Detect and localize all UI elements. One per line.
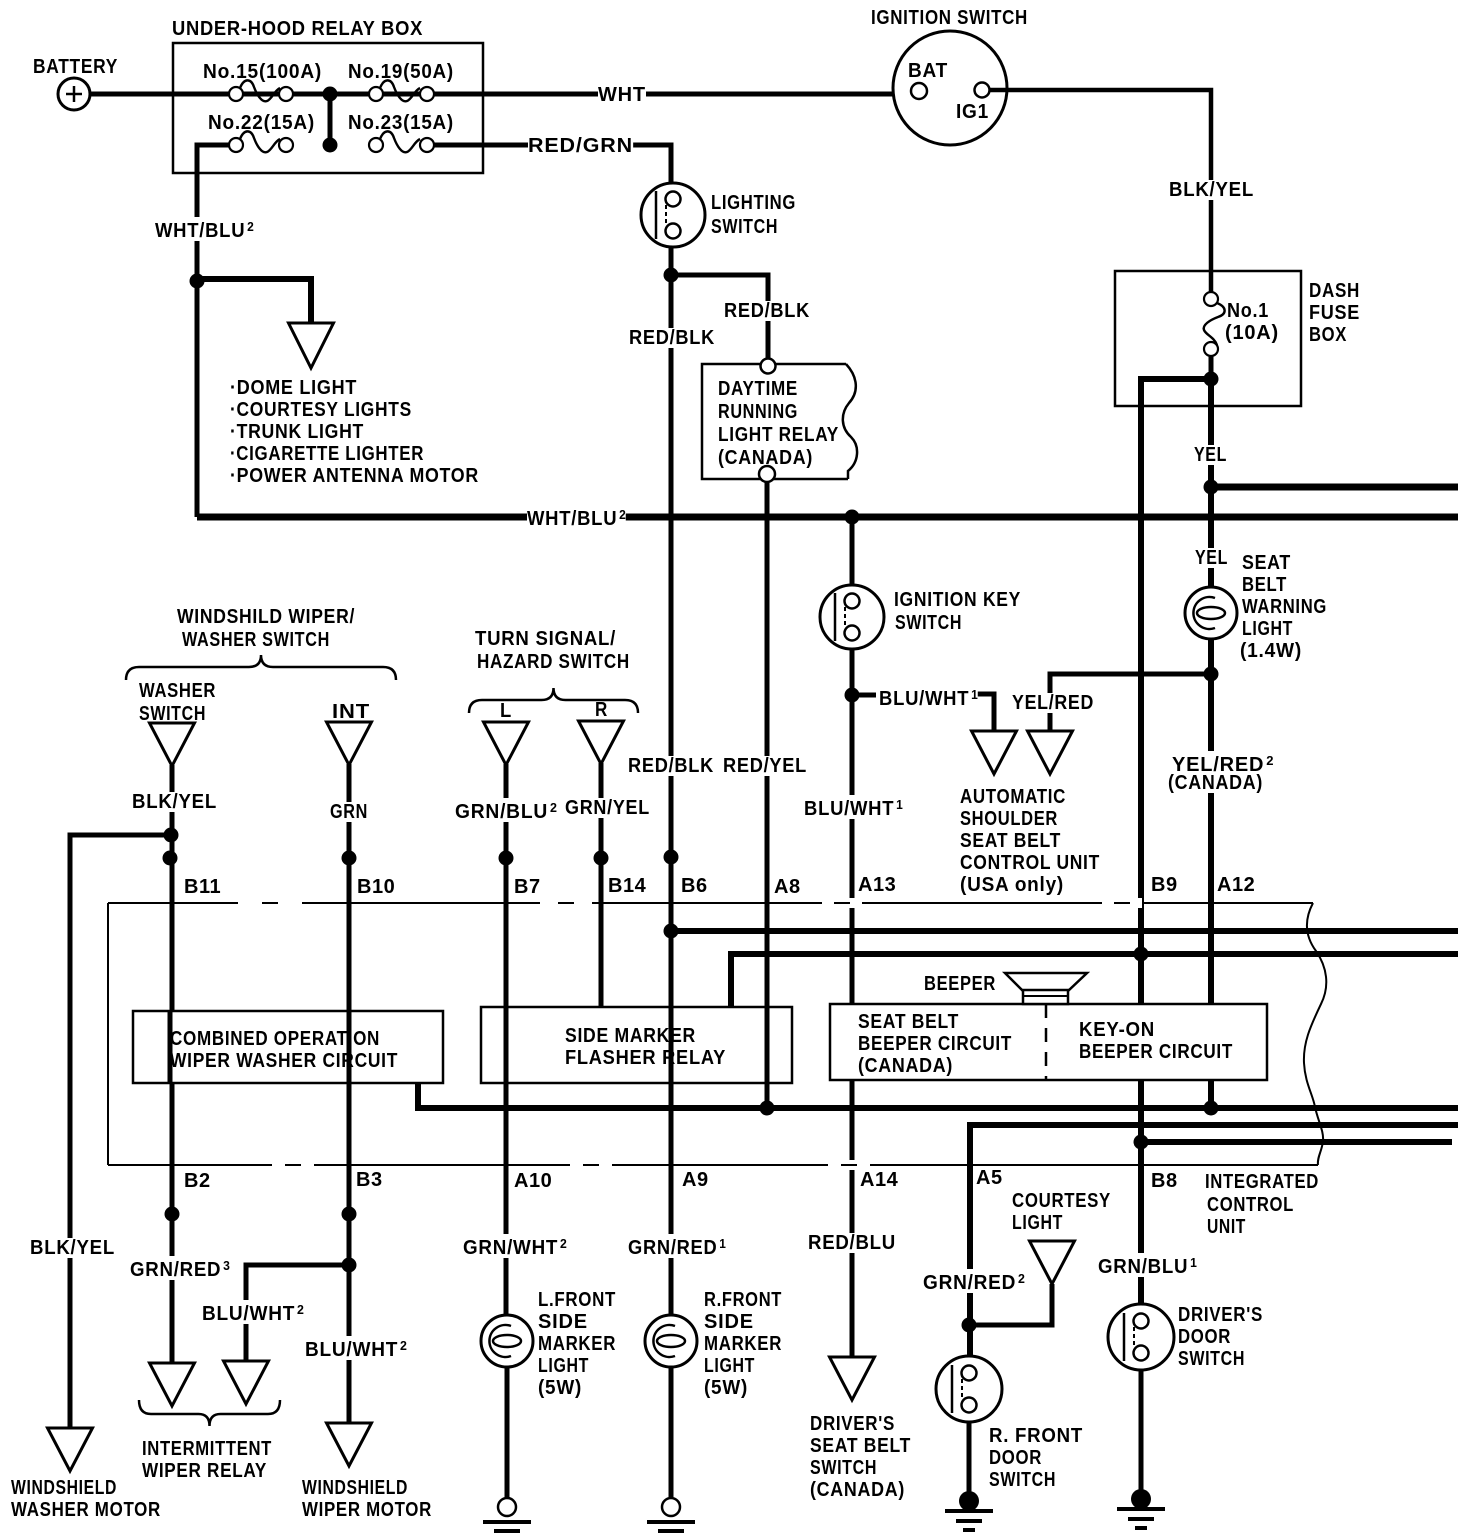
label BATTERY	[33, 57, 118, 77]
label HAZARD SWITCH	[477, 652, 630, 672]
label WASHER	[139, 681, 216, 701]
wire fuse No.1 to node	[1209, 356, 1214, 382]
ignition key switch	[820, 585, 884, 649]
label COMBINED OPERATION	[170, 1029, 380, 1049]
pin label A8	[774, 877, 801, 897]
node WHT/BLU2 branch	[190, 274, 205, 289]
label DASH	[1309, 281, 1360, 301]
wire BLK/YEL washer switch B11-B2	[170, 765, 175, 1363]
connector arrow intermittent wiper relay right	[224, 1361, 269, 1404]
node B6 above connector	[664, 850, 679, 865]
label SWITCH (ignition key)	[895, 613, 962, 633]
label SWITCH (seat belt)	[810, 1458, 877, 1478]
daytime relay bottom terminal	[759, 466, 775, 482]
fuse No.23 (15A)	[369, 131, 434, 152]
label No.22(15A)	[208, 113, 315, 133]
label SEAT	[1242, 553, 1291, 573]
label (1.4W)	[1240, 641, 1302, 661]
connector arrow YEL/RED (to seat belt control unit)	[1028, 731, 1073, 774]
label LIGHT (courtesy)	[1012, 1213, 1063, 1233]
label (CANADA) daytime relay	[718, 448, 813, 468]
label IG1	[956, 102, 989, 122]
label No.23(15A)	[348, 113, 454, 133]
wire A13 drop	[850, 649, 855, 1357]
label MARKER (right)	[704, 1334, 782, 1354]
label UNDER-HOOD RELAY BOX	[172, 19, 423, 39]
label DAYTIME	[718, 379, 798, 399]
label INT	[332, 702, 370, 722]
label BLK/YEL washer motor	[30, 1238, 115, 1258]
ground right front side marker light	[647, 1498, 695, 1536]
pin label B14	[608, 876, 646, 896]
driver's door switch	[1108, 1304, 1174, 1370]
label No.1	[1227, 301, 1269, 321]
wire A12 beeper box to bus3	[1208, 1080, 1214, 1108]
daytime relay top terminal	[761, 359, 776, 374]
brace turn signal/hazard switch	[469, 688, 638, 713]
wire GRN/BLU2 B7-A10	[504, 764, 509, 1315]
wire bus4 A5 feed	[970, 1125, 1458, 1357]
label WINDSHIELD (washer)	[11, 1478, 117, 1498]
pin label B2	[184, 1171, 211, 1191]
label RED/GRN	[528, 136, 633, 156]
connector arrow L turn signal	[484, 722, 529, 765]
beeper speaker	[1005, 973, 1087, 1004]
label GRN/RED2	[923, 1269, 1025, 1293]
wire RED/BLK main drop B6	[669, 275, 674, 1315]
ignition switch BAT terminal	[911, 83, 927, 99]
node BLK/YEL branch to washer motor	[164, 828, 179, 843]
label INTEGRATED	[1205, 1172, 1319, 1192]
label BLU/WHT2 relay	[202, 1300, 304, 1324]
lighting switch	[641, 183, 705, 247]
label LIGHT RELAY	[718, 425, 839, 445]
label BEEPER	[924, 974, 996, 994]
label BLK/YEL washer switch	[132, 792, 217, 812]
pin label B9	[1151, 875, 1178, 895]
ignition switch body	[893, 31, 1007, 145]
label ·COURTESY LIGHTS	[230, 400, 412, 420]
label ·DOME LIGHT	[230, 378, 357, 398]
ignition switch IG1 terminal	[975, 83, 990, 98]
label LIGHTING	[711, 193, 796, 213]
connector arrow courtesy light	[1030, 1241, 1075, 1284]
wire RED/YEL relay to A8	[765, 482, 770, 1108]
label L	[500, 701, 512, 721]
fuse No.22 (15A)	[229, 131, 293, 152]
wire BLK/YEL IG1 to dash fuse box	[990, 90, 1211, 292]
label IGNITION KEY	[894, 590, 1021, 610]
label DRIVER'S (seat belt)	[810, 1414, 895, 1434]
label BLU/WHT2 wiper motor	[305, 1336, 407, 1360]
label BOX	[1309, 325, 1347, 345]
label SWITCH (lighting)	[711, 217, 778, 237]
label (CANADA) yel/red2	[1168, 773, 1263, 793]
label WASHER SWITCH	[182, 630, 330, 650]
left front side marker light bulb (5W)	[481, 1315, 533, 1367]
connector arrow R turn signal	[579, 721, 624, 764]
wire WHT/BLU2 long bus	[197, 514, 1458, 521]
label (5W) left	[538, 1378, 582, 1398]
label BEEPER CIRCUIT (canada)	[858, 1034, 1012, 1054]
wire bus2 flasher relay right	[731, 954, 1458, 1007]
label LIGHT (right marker)	[704, 1356, 755, 1376]
label WHT/BLU2 bus	[527, 505, 626, 529]
wire lighting switch to node	[669, 247, 674, 275]
node below fuse No.1	[1204, 372, 1219, 387]
label BLU/WHT1 A13	[804, 795, 903, 819]
wire fuse No.22 to WHT/BLU2 drop	[197, 145, 229, 517]
label SEAT BELT (beeper box)	[858, 1012, 959, 1032]
label GRN/YEL	[565, 798, 650, 818]
label WIPER WASHER CIRCUIT	[170, 1051, 398, 1071]
label No.19(50A)	[348, 62, 454, 82]
dash fuse box	[1115, 271, 1301, 406]
wire courtesy light branch	[969, 1284, 1052, 1325]
pin label A14	[860, 1170, 898, 1190]
label ·TRUNK LIGHT	[230, 422, 364, 442]
label LIGHT (seat belt warning)	[1242, 619, 1293, 639]
node junction fuses No.15/No.19	[323, 87, 338, 102]
node BLU/WHT1 branch	[845, 688, 860, 703]
wire driver's door switch to ground	[1139, 1370, 1144, 1497]
label FLASHER RELAY	[565, 1048, 726, 1068]
wire door switch to ground	[967, 1422, 972, 1499]
node YEL branch	[1204, 480, 1219, 495]
connector arrow intermittent wiper relay left	[150, 1363, 195, 1406]
label WHT	[598, 85, 646, 105]
label INTERMITTENT	[142, 1439, 272, 1459]
brace intermittent wiper relay	[139, 1400, 280, 1426]
integrated control unit bottom edge	[108, 1164, 1318, 1166]
wire YEL/RED branch to arrow	[1050, 674, 1211, 731]
label WHT/BLU2	[155, 217, 254, 241]
label ·CIGARETTE LIGHTER	[230, 444, 424, 464]
wire BLU/WHT2 branch	[246, 1265, 349, 1361]
wire branch to accessory arrow	[197, 279, 311, 323]
label DOOR (driver)	[1178, 1327, 1231, 1347]
integrated control unit top edge	[108, 902, 1313, 904]
label BLK/YEL	[1169, 180, 1254, 200]
pin label B11	[184, 877, 221, 897]
wires through side marker flasher relay box	[506, 1007, 767, 1083]
label WARNING	[1242, 597, 1327, 617]
label SWITCH (r front door)	[989, 1470, 1056, 1490]
label TURN SIGNAL/	[475, 629, 616, 649]
wire branch to windshield washer motor	[70, 835, 171, 1428]
pin label A9	[682, 1170, 709, 1190]
label YEL/RED	[1012, 693, 1094, 713]
ground r front door switch	[945, 1491, 993, 1530]
label AUTOMATIC	[960, 787, 1066, 807]
brace windshield wiper/washer switch	[126, 655, 396, 680]
wire RED/GRN fuse No.23 to lighting switch	[434, 145, 671, 183]
label (USA only)	[960, 875, 1064, 895]
label RED/BLU	[808, 1233, 896, 1253]
node B9 bus2	[1134, 947, 1149, 962]
wire below right marker light	[669, 1367, 674, 1498]
fuse No.19 (50A)	[369, 80, 434, 101]
fuse No.15 (100A)	[229, 80, 293, 101]
label SWITCH (washer)	[139, 704, 206, 724]
node ignition key switch tap	[845, 510, 860, 525]
label SHOULDER	[960, 809, 1058, 829]
label (10A)	[1225, 323, 1279, 343]
wire WHT battery to ignition switch BAT	[90, 92, 911, 97]
battery positive terminal	[58, 78, 90, 110]
label DRIVER'S (door)	[1178, 1305, 1263, 1325]
label RED/YEL pair	[723, 756, 807, 776]
node B6 bus1	[664, 924, 679, 939]
integrated control unit left edge	[107, 903, 109, 1165]
connector arrow BLU/WHT1 (to seat belt control unit)	[972, 731, 1017, 774]
wire YEL bus right	[1211, 484, 1458, 491]
label SWITCH (driver door)	[1178, 1349, 1245, 1369]
connector arrow INT switch	[327, 722, 372, 765]
pin label A10	[514, 1171, 552, 1191]
label SEAT BELT (control unit)	[960, 831, 1061, 851]
wire bus5 B9 right	[1141, 1139, 1452, 1145]
node B7 pin	[499, 851, 514, 866]
label (5W) right	[704, 1378, 748, 1398]
label WINDSHIELD (wiper)	[302, 1478, 408, 1498]
wire branch to B9 feed	[1141, 379, 1211, 1305]
label BAT	[908, 61, 948, 81]
node RED/BLK branch	[664, 268, 679, 283]
label COURTESY	[1012, 1191, 1111, 1211]
label GRN/BLU2	[455, 798, 557, 822]
connector arrow driver's seat belt switch (Canada)	[830, 1357, 875, 1400]
label BLU/WHT1 branch	[879, 685, 978, 709]
r front door switch	[936, 1356, 1002, 1422]
label YEL/RED2	[1172, 751, 1274, 775]
wire below left marker light	[505, 1367, 510, 1498]
label R. FRONT	[989, 1426, 1083, 1446]
label GRN/RED3	[130, 1256, 230, 1280]
wire ignition key switch feed	[850, 517, 855, 587]
connector arrow windshield washer motor	[48, 1428, 93, 1471]
label BEEPER CIRCUIT (key-on)	[1079, 1042, 1233, 1062]
label WIPER RELAY	[142, 1461, 267, 1481]
integrated control unit torn right edge	[1304, 903, 1326, 1165]
pin label B6	[681, 876, 708, 896]
node B9 bus5	[1134, 1135, 1149, 1150]
label LIGHT (left marker)	[538, 1356, 589, 1376]
wire BLU/WHT1 branch	[852, 693, 876, 698]
pin label A13	[858, 875, 896, 895]
label WASHER MOTOR	[11, 1500, 161, 1520]
pin label B3	[356, 1170, 383, 1190]
wire below warning light	[1208, 639, 1214, 1006]
seat belt warning light bulb (1.4W)	[1185, 587, 1237, 639]
connector row 2 dash breaks	[272, 1160, 870, 1170]
node B2 pin	[165, 1207, 180, 1222]
label (CANADA) beeper	[858, 1056, 953, 1076]
node BLU/WHT2 branch	[342, 1258, 357, 1273]
label BELT	[1242, 575, 1287, 595]
wire GRN INT B10-B3	[347, 764, 352, 1423]
connector arrow windshield wiper motor	[327, 1423, 372, 1466]
label DOOR (r front)	[989, 1448, 1042, 1468]
label KEY-ON	[1079, 1020, 1155, 1040]
label FUSE	[1309, 303, 1360, 323]
label R	[595, 700, 608, 720]
seat belt / key-on beeper circuit box	[830, 1004, 1267, 1080]
node B10 pin	[342, 851, 357, 866]
label SIDE (right)	[704, 1312, 754, 1332]
combined operation wiper washer circuit box	[133, 1011, 443, 1083]
label RUNNING	[718, 402, 798, 422]
label YEL upper	[1194, 445, 1227, 465]
connector arrow washer switch	[150, 723, 195, 766]
wire bus3 wiper circuit to A8/A12	[418, 1083, 1458, 1108]
label GRN/RED1	[628, 1234, 726, 1258]
ground left front side marker light	[483, 1498, 531, 1536]
wire link fuse rows	[328, 94, 333, 145]
node B3 pin	[342, 1207, 357, 1222]
under-hood relay box	[173, 43, 483, 173]
node B14 pin	[594, 851, 609, 866]
label SEAT BELT (switch)	[810, 1436, 911, 1456]
daytime running light relay box (Canada)	[702, 364, 857, 479]
wire RED/BLK to daytime relay	[671, 275, 768, 360]
node junction fuses No.22/No.23	[323, 138, 338, 153]
node YEL/RED branch	[1204, 667, 1219, 682]
node courtesy light branch	[962, 1318, 977, 1333]
label CONTROL UNIT	[960, 853, 1100, 873]
fuse No.1 (10A)	[1204, 292, 1225, 356]
wire bus1 B6 right	[671, 928, 1458, 934]
label SIDE MARKER	[565, 1026, 696, 1046]
label WINDSHILD WIPER/	[177, 607, 355, 627]
wire GRN/YEL B14	[599, 763, 604, 1007]
wire BLU/WHT1 elbow to arrow	[975, 694, 994, 731]
label GRN/WHT2	[463, 1234, 567, 1258]
pin label B8	[1151, 1171, 1178, 1191]
label GRN/BLU1	[1098, 1253, 1197, 1277]
label WIPER MOTOR	[302, 1500, 432, 1520]
wire YEL fuse No.1 down to warning light	[1208, 379, 1214, 588]
label L.FRONT	[538, 1290, 616, 1310]
label ·POWER ANTENNA MOTOR	[230, 466, 479, 486]
node B11 pin	[163, 851, 178, 866]
connector row 1 dash breaks	[238, 898, 1142, 908]
side marker flasher relay box	[481, 1007, 792, 1083]
ground driver's door switch	[1117, 1489, 1165, 1528]
wires through combined operation box	[170, 1011, 349, 1083]
pin label B10	[357, 877, 395, 897]
label (CANADA) seat belt switch	[810, 1480, 905, 1500]
label CONTROL	[1207, 1195, 1294, 1215]
label No.15(100A)	[203, 62, 322, 82]
label RED/BLK pair	[628, 756, 714, 776]
label IGNITION SWITCH	[871, 8, 1028, 28]
label RED/BLK right	[724, 301, 810, 321]
pin label B7	[514, 877, 541, 897]
label MARKER (left)	[538, 1334, 616, 1354]
right front side marker light bulb (5W)	[645, 1315, 697, 1367]
pin label A5	[976, 1168, 1003, 1188]
node A12 bus3	[1204, 1101, 1219, 1116]
label RED/BLK left	[629, 328, 715, 348]
label UNIT	[1207, 1217, 1246, 1237]
label R.FRONT	[704, 1290, 782, 1310]
label GRN	[330, 802, 368, 822]
label SIDE (left)	[538, 1312, 588, 1332]
connector arrow dome/courtesy/trunk loads	[289, 323, 334, 368]
label YEL lower	[1195, 548, 1228, 568]
pin label A12	[1217, 875, 1255, 895]
node A8 bus3	[760, 1101, 775, 1116]
